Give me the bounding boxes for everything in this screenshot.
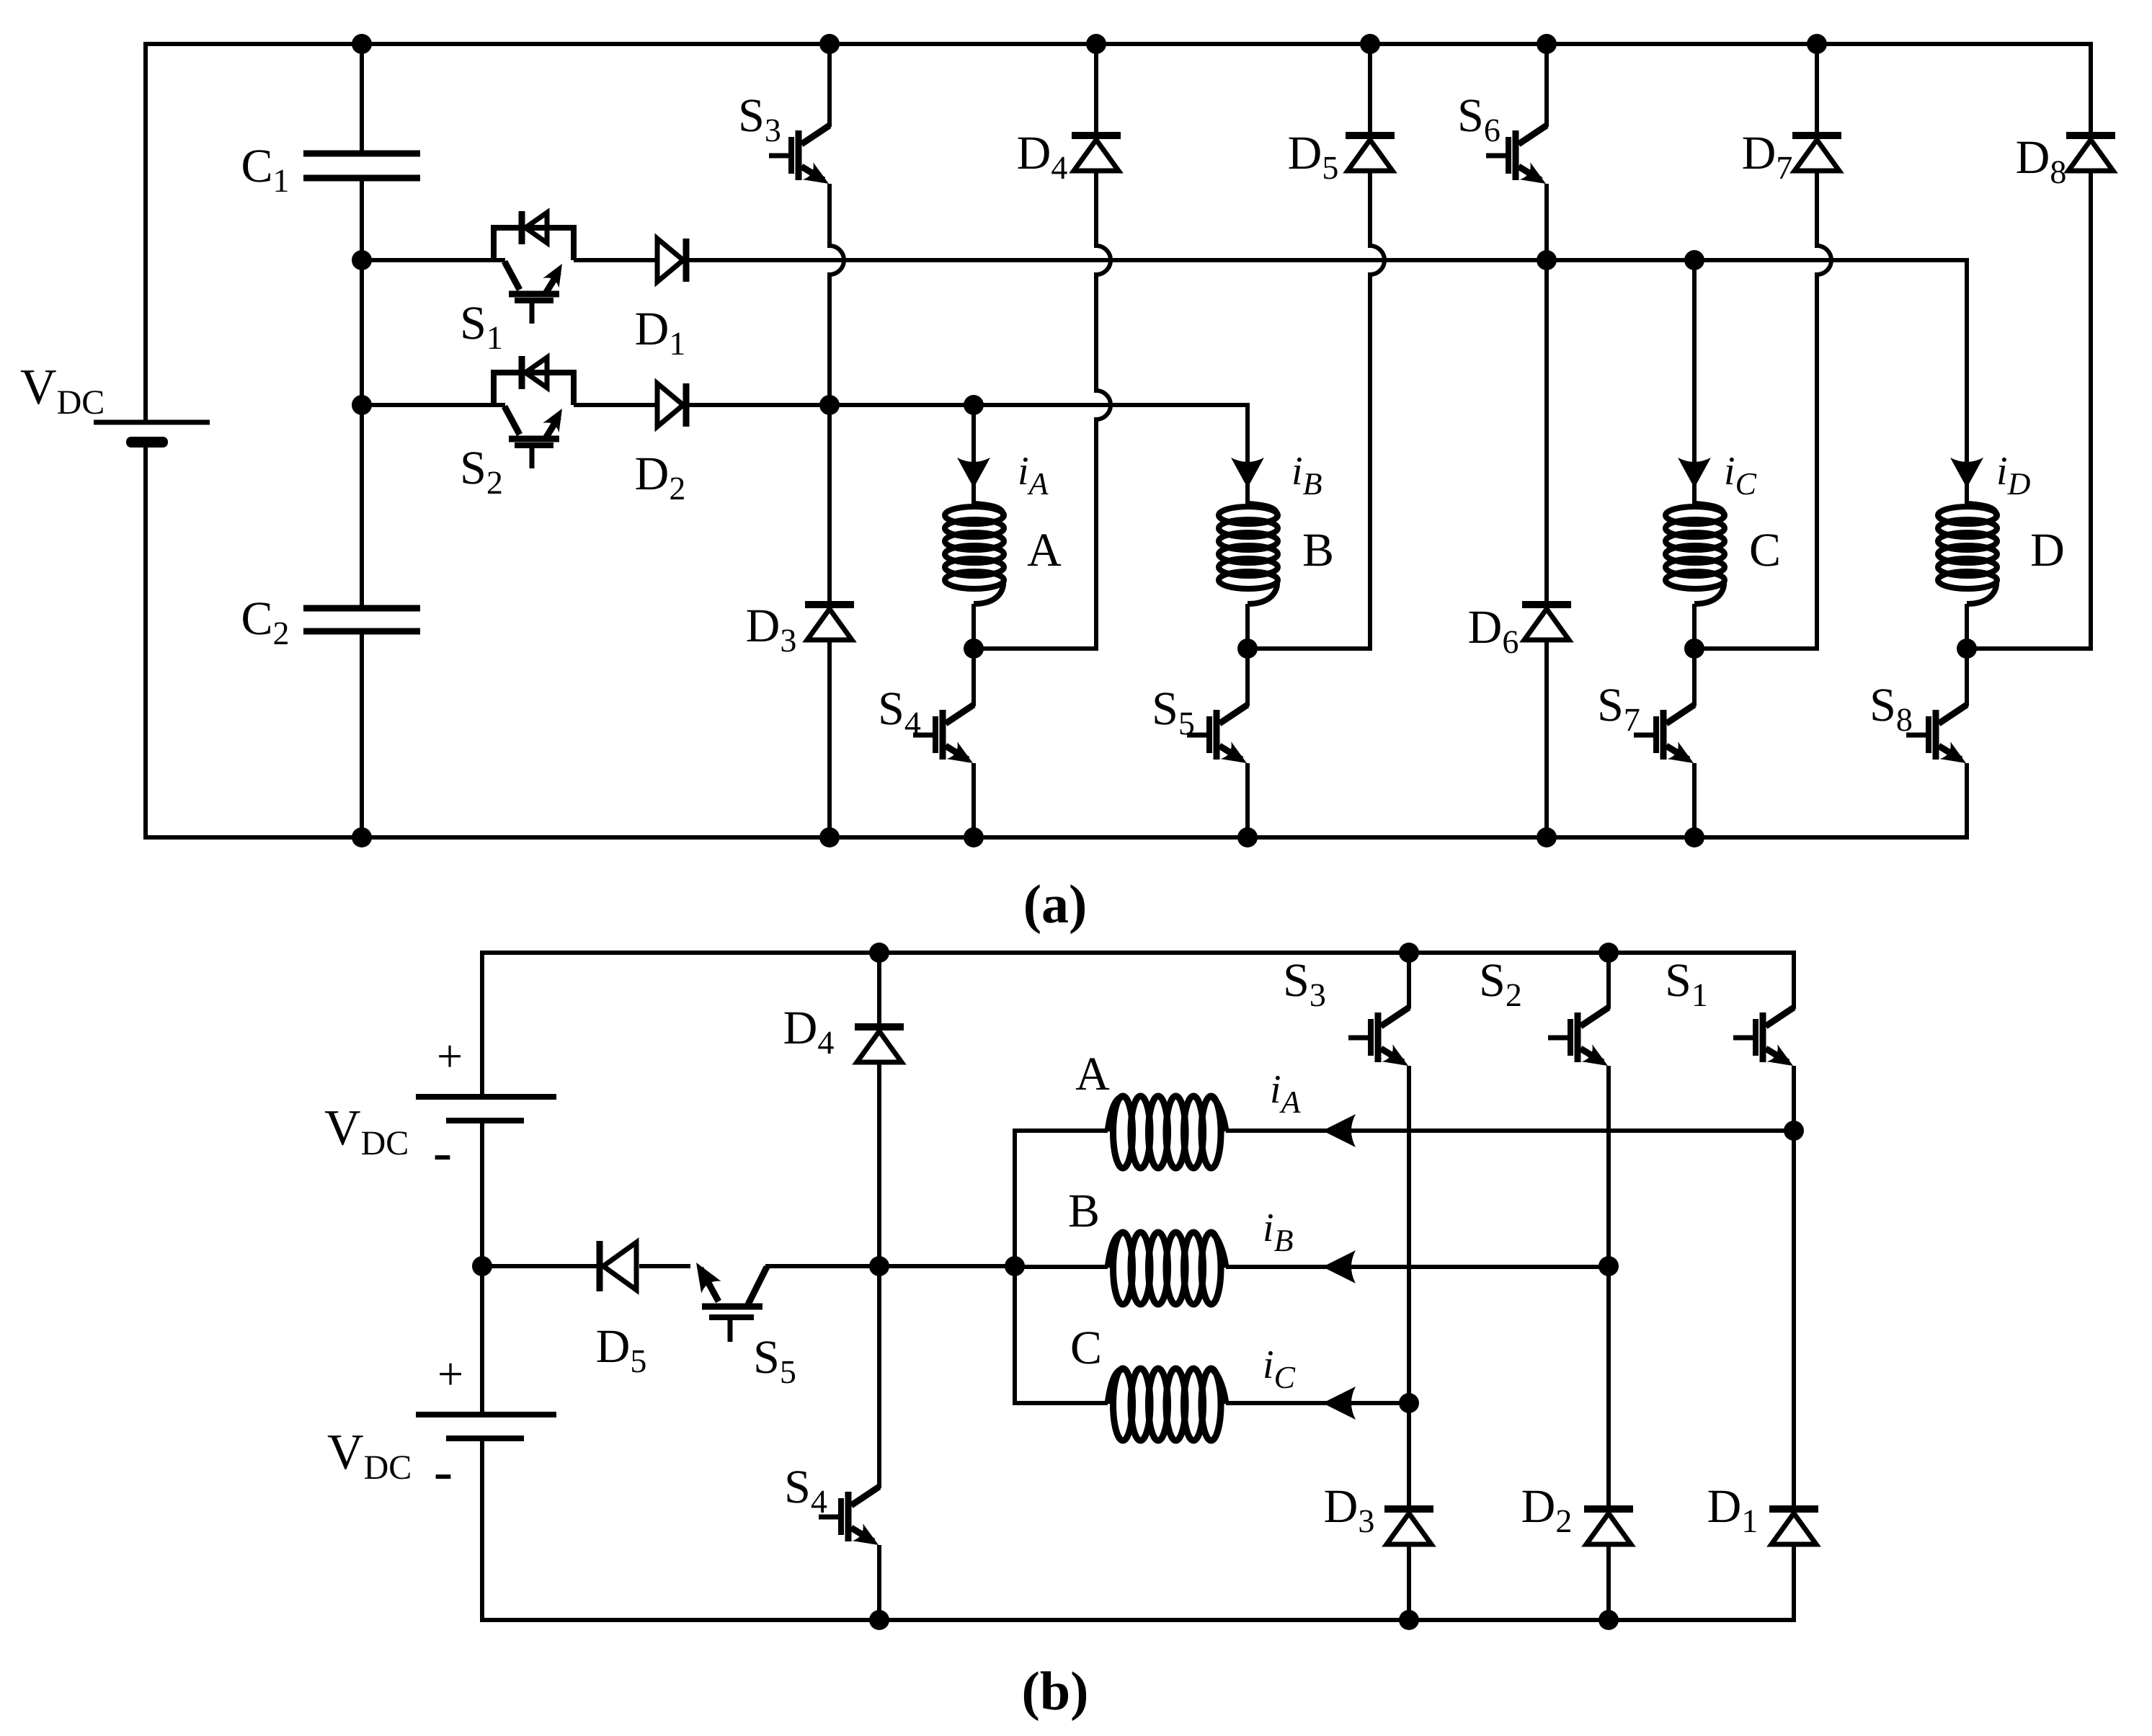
wire 1 from cap midpoint to S1 (a)	[362, 258, 505, 262]
igbt S1 box	[494, 228, 574, 260]
svg-text:D: D	[2030, 524, 2065, 577]
junction dot (b) at 669,1757	[472, 1256, 492, 1276]
wire S3-D3 (a)	[827, 405, 832, 605]
svg-text:B: B	[1302, 524, 1334, 577]
junction dot (a) at 502,361	[352, 250, 372, 270]
diode D3	[805, 601, 854, 608]
winding A coil (b)	[1108, 1097, 1123, 1131]
wire left source branch lower (a)	[143, 448, 148, 840]
junction dot (b) at 1220,2248	[869, 1610, 889, 1630]
wire winding A to arrow (b)	[1226, 1129, 1322, 1133]
igbt S8	[1939, 705, 1967, 724]
diode S2 antiparallel	[519, 356, 525, 389]
junction dot (b) at 1955,2248	[1399, 1610, 1419, 1630]
wire D5 lower with hop (a)	[1370, 171, 1384, 649]
junction dot (a) at 2351,1162	[1684, 827, 1704, 847]
wire winding B to arrow (b)	[1226, 1265, 1322, 1269]
diode D5	[1346, 132, 1395, 139]
junction dot (a) at 1731,1162	[1237, 827, 1258, 847]
junction dot (a) at 2351,361	[1684, 250, 1704, 270]
junction dot (a) at 1151,562	[819, 395, 840, 415]
wire D8 lower (a)	[2089, 171, 2093, 649]
winding D coil (a)	[1967, 504, 1996, 517]
current arrow iA (b)	[1322, 1114, 1356, 1147]
wire D1 to bottom rail (b)	[1792, 1544, 1796, 1622]
wire S3 collector (b)	[1407, 953, 1411, 1009]
igbt S4 (b)	[851, 1487, 879, 1505]
wire D7 to C bottom node (a)	[1694, 646, 1819, 651]
junction dot (b) at 1220,1757	[869, 1256, 889, 1276]
wire S3 emitter with hop over wire1 (a)	[830, 184, 844, 405]
igbt S3 (b)	[1381, 1007, 1409, 1026]
battery VDC (a)	[94, 420, 210, 425]
current arrow iC (a)	[1678, 458, 1711, 488]
wire D7 lower with hop (a)	[1817, 171, 1831, 649]
wire capacitor branch upper (a)	[360, 44, 364, 153]
wire phase D lower (a)	[1965, 604, 1969, 649]
svg-text:A: A	[1075, 1048, 1110, 1100]
wire left branch lower (b)	[480, 1438, 484, 1622]
wire phase D to switch (a)	[1965, 649, 1969, 706]
diode D7	[1792, 132, 1841, 139]
diode D2 (b)	[1584, 1505, 1633, 1513]
wire 1 S1 to D1 (a)	[574, 258, 657, 262]
diode D3 (b)	[1384, 1505, 1433, 1513]
igbt S5	[1219, 705, 1248, 724]
wire capacitor branch middle (a)	[360, 178, 364, 608]
junction dot (a) at 2521,61	[1807, 34, 1827, 54]
igbt S1 (b)	[1766, 1007, 1794, 1026]
diode D4 (b)	[855, 1023, 904, 1031]
wire mid D4 node to bus (b)	[879, 1264, 1015, 1268]
junction dot (a) at 1151,1162	[819, 827, 840, 847]
current arrow iC (b)	[1322, 1386, 1356, 1420]
wire phase A lower (a)	[971, 604, 976, 649]
wire capacitor branch lower (a)	[360, 631, 364, 837]
wire phase C to switch (a)	[1692, 649, 1697, 706]
diode D1 (b)	[1769, 1505, 1818, 1513]
wire S7 emitter to bottom rail (a)	[1692, 763, 1697, 837]
wire S8 emitter to bottom rail (a)	[1965, 763, 1969, 840]
junction dot (b) at 1408,1757	[1005, 1256, 1025, 1276]
current arrow iA (a)	[957, 458, 990, 488]
wire D3 to bottom rail (b)	[1407, 1544, 1411, 1620]
wire D5 to S5 (b)	[639, 1264, 690, 1268]
junction dot (a) at 2146,1162	[1537, 827, 1557, 847]
wire D8 to D bottom node (a)	[1967, 646, 2093, 651]
diode D5 (b)	[597, 1241, 603, 1291]
wire S6 emitter (a)	[1544, 184, 1549, 260]
igbt S2 box	[494, 373, 574, 405]
winding A coil (a)	[974, 504, 1003, 517]
junction dot (b) at 1955,1322	[1399, 943, 1419, 963]
capacitor C2	[303, 605, 420, 612]
wire phase C to coil (a)	[1692, 484, 1697, 504]
winding C coil (b)	[1108, 1369, 1123, 1404]
battery VDC lower (b)	[416, 1412, 556, 1417]
wire bottom rail (a)	[146, 835, 1967, 840]
current arrow iB (b)	[1322, 1250, 1356, 1283]
wire D4 upper (a)	[1094, 44, 1098, 135]
wire winding C to arrow (b)	[1226, 1401, 1322, 1405]
wire 1 S6 to C phase (a)	[1547, 258, 1694, 262]
junction dot (a) at 2729,900	[1957, 638, 1977, 659]
wire D4 to mid node (b)	[877, 1062, 881, 1266]
wire S2 winding row to D2 (b)	[1606, 1266, 1611, 1509]
wire 2 from cap midpoint to S2 (a)	[362, 403, 505, 407]
svg-text:A: A	[1027, 524, 1062, 577]
svg-text:B: B	[1068, 1185, 1100, 1237]
wire S4 emitter to bottom rail (a)	[971, 763, 976, 837]
junction dot (a) at 2146,61	[1537, 34, 1557, 54]
diode D1	[657, 239, 683, 282]
battery VDC upper (b)	[416, 1094, 556, 1100]
wire winding B left lead (b)	[1015, 1265, 1108, 1269]
junction dot (b) at 2489,1569	[1784, 1121, 1804, 1141]
svg-text:(a): (a)	[1023, 874, 1088, 935]
wire 2 S2 to D2 (a)	[574, 403, 657, 407]
diode D4	[1072, 132, 1121, 139]
winding B coil (a)	[1248, 504, 1277, 517]
junction dot (a) at 1351,900	[964, 638, 984, 659]
igbt S3	[801, 125, 830, 144]
wire D6 to bottom rail (a)	[1544, 640, 1549, 837]
diode D8	[2066, 132, 2115, 139]
wire phase B lower (a)	[1245, 604, 1250, 649]
wire S2 emitter to winding row (b)	[1606, 1066, 1611, 1266]
wire D7 upper (a)	[1815, 44, 1819, 135]
wire D2 to bottom rail (b)	[1606, 1544, 1611, 1620]
svg-text:C: C	[1749, 524, 1781, 577]
wire left branch upper (b)	[480, 951, 484, 1097]
wire top rail (b)	[480, 951, 1794, 955]
igbt S7	[1666, 705, 1694, 724]
wire D4 lower with hops (a)	[1096, 171, 1111, 649]
svg-text:+: +	[437, 1348, 463, 1399]
wire phase D to coil (a)	[1965, 484, 1969, 504]
wire D8 upper (a)	[2089, 42, 2093, 135]
wire S5 emitter to bottom rail (a)	[1245, 763, 1250, 837]
wire D5 upper (a)	[1368, 44, 1372, 135]
svg-text:+: +	[437, 1031, 463, 1082]
wire winding bus (b)	[1013, 1129, 1017, 1405]
junction dot (a) at 1521,61	[1086, 34, 1106, 54]
wire top rail (a)	[146, 44, 2091, 424]
junction dot (a) at 1351,562	[964, 395, 984, 415]
wire 2 D2 to B corner (a)	[688, 403, 1248, 407]
wire S3 winding row to D3 (b)	[1407, 1403, 1411, 1509]
wire phase D upper (a)	[1965, 258, 1969, 482]
igbt S2 (b)	[1580, 1007, 1609, 1026]
igbt S5 (b)	[696, 1263, 721, 1293]
junction dot (a) at 1901,61	[1360, 34, 1380, 54]
svg-text:-: -	[433, 1121, 453, 1184]
wire S1 winding row to D1 (b)	[1792, 1131, 1796, 1509]
junction dot (b) at 2232,1322	[1599, 943, 1619, 963]
wire winding B to switch column (b)	[1322, 1265, 1609, 1269]
junction dot (a) at 502,61	[352, 34, 372, 54]
wire S4 emitter to bottom rail (b)	[877, 1545, 881, 1620]
wire phase A to coil (a)	[971, 484, 976, 504]
wire mid from battery node to D5 (b)	[482, 1264, 600, 1268]
wire bottom rail (b)	[480, 1618, 1794, 1622]
wire phase C upper (a)	[1692, 258, 1697, 482]
wire winding C to switch column (b)	[1322, 1401, 1409, 1405]
current arrow iD (a)	[1950, 458, 1983, 488]
junction dot (b) at 2232,2248	[1599, 1610, 1619, 1630]
wire S1 emitter to winding row (b)	[1792, 1066, 1796, 1131]
wire S2 collector (b)	[1606, 953, 1611, 1009]
igbt S2	[504, 406, 520, 435]
wire left branch middle (b)	[480, 1121, 484, 1415]
igbt S1	[504, 262, 520, 290]
diode D6	[1522, 601, 1571, 608]
wire S6 node to D6 (a)	[1544, 260, 1549, 605]
capacitor C1	[303, 151, 420, 157]
wire D5 to B bottom node (a)	[1248, 646, 1372, 651]
junction dot (a) at 2146,361	[1537, 250, 1557, 270]
wire winding C left lead (b)	[1015, 1401, 1108, 1405]
winding B coil (b)	[1108, 1233, 1123, 1268]
wire S3 collector (a)	[827, 44, 832, 127]
wire winding A left lead (b)	[1015, 1129, 1108, 1133]
junction dot (a) at 1351,1162	[964, 827, 984, 847]
wire D4 upper (b)	[877, 953, 881, 1027]
junction dot (a) at 502,1162	[352, 827, 372, 847]
wire phase B to coil (a)	[1245, 484, 1250, 504]
wire winding A to switch column (b)	[1322, 1129, 1794, 1133]
wire D4 to A bottom node (a)	[974, 646, 1098, 651]
wire phase B upper (a)	[1245, 403, 1250, 482]
svg-text:-: -	[434, 1440, 453, 1503]
wire phase A to switch (a)	[971, 649, 976, 706]
junction dot (a) at 2351,900	[1684, 638, 1704, 659]
junction dot (a) at 502,562	[352, 395, 372, 415]
wire phase A upper (a)	[971, 403, 976, 482]
svg-text:C: C	[1070, 1322, 1102, 1374]
wire S5 to D4 node (b)	[765, 1264, 879, 1268]
wire phase B to switch (a)	[1245, 649, 1250, 706]
junction dot (b) at 1955,1947	[1399, 1393, 1419, 1413]
igbt S6	[1519, 125, 1547, 144]
wire 1 C phase to D corner (a)	[1694, 258, 1967, 262]
diode D2	[657, 383, 683, 427]
wire phase C lower (a)	[1692, 604, 1697, 649]
igbt S4	[946, 705, 974, 724]
wire S6 collector (a)	[1544, 44, 1549, 127]
junction dot (a) at 1151,61	[819, 34, 840, 54]
svg-text:(b): (b)	[1022, 1661, 1089, 1722]
winding C coil (a)	[1694, 504, 1724, 517]
wire S3 emitter to winding row (b)	[1407, 1066, 1411, 1403]
wire 1 D1 to S6 (a)	[688, 258, 1547, 262]
junction dot (b) at 1220,1322	[869, 943, 889, 963]
junction dot (b) at 2232,1757	[1599, 1256, 1619, 1276]
wire D3 to bottom rail (a)	[827, 640, 832, 837]
junction dot (a) at 1731,900	[1237, 638, 1258, 659]
wire mid node to S4 (b)	[877, 1266, 881, 1488]
diode S1 antiparallel	[519, 211, 525, 244]
wire S1 collector (b)	[1792, 951, 1796, 1009]
current arrow iB (a)	[1231, 458, 1264, 488]
